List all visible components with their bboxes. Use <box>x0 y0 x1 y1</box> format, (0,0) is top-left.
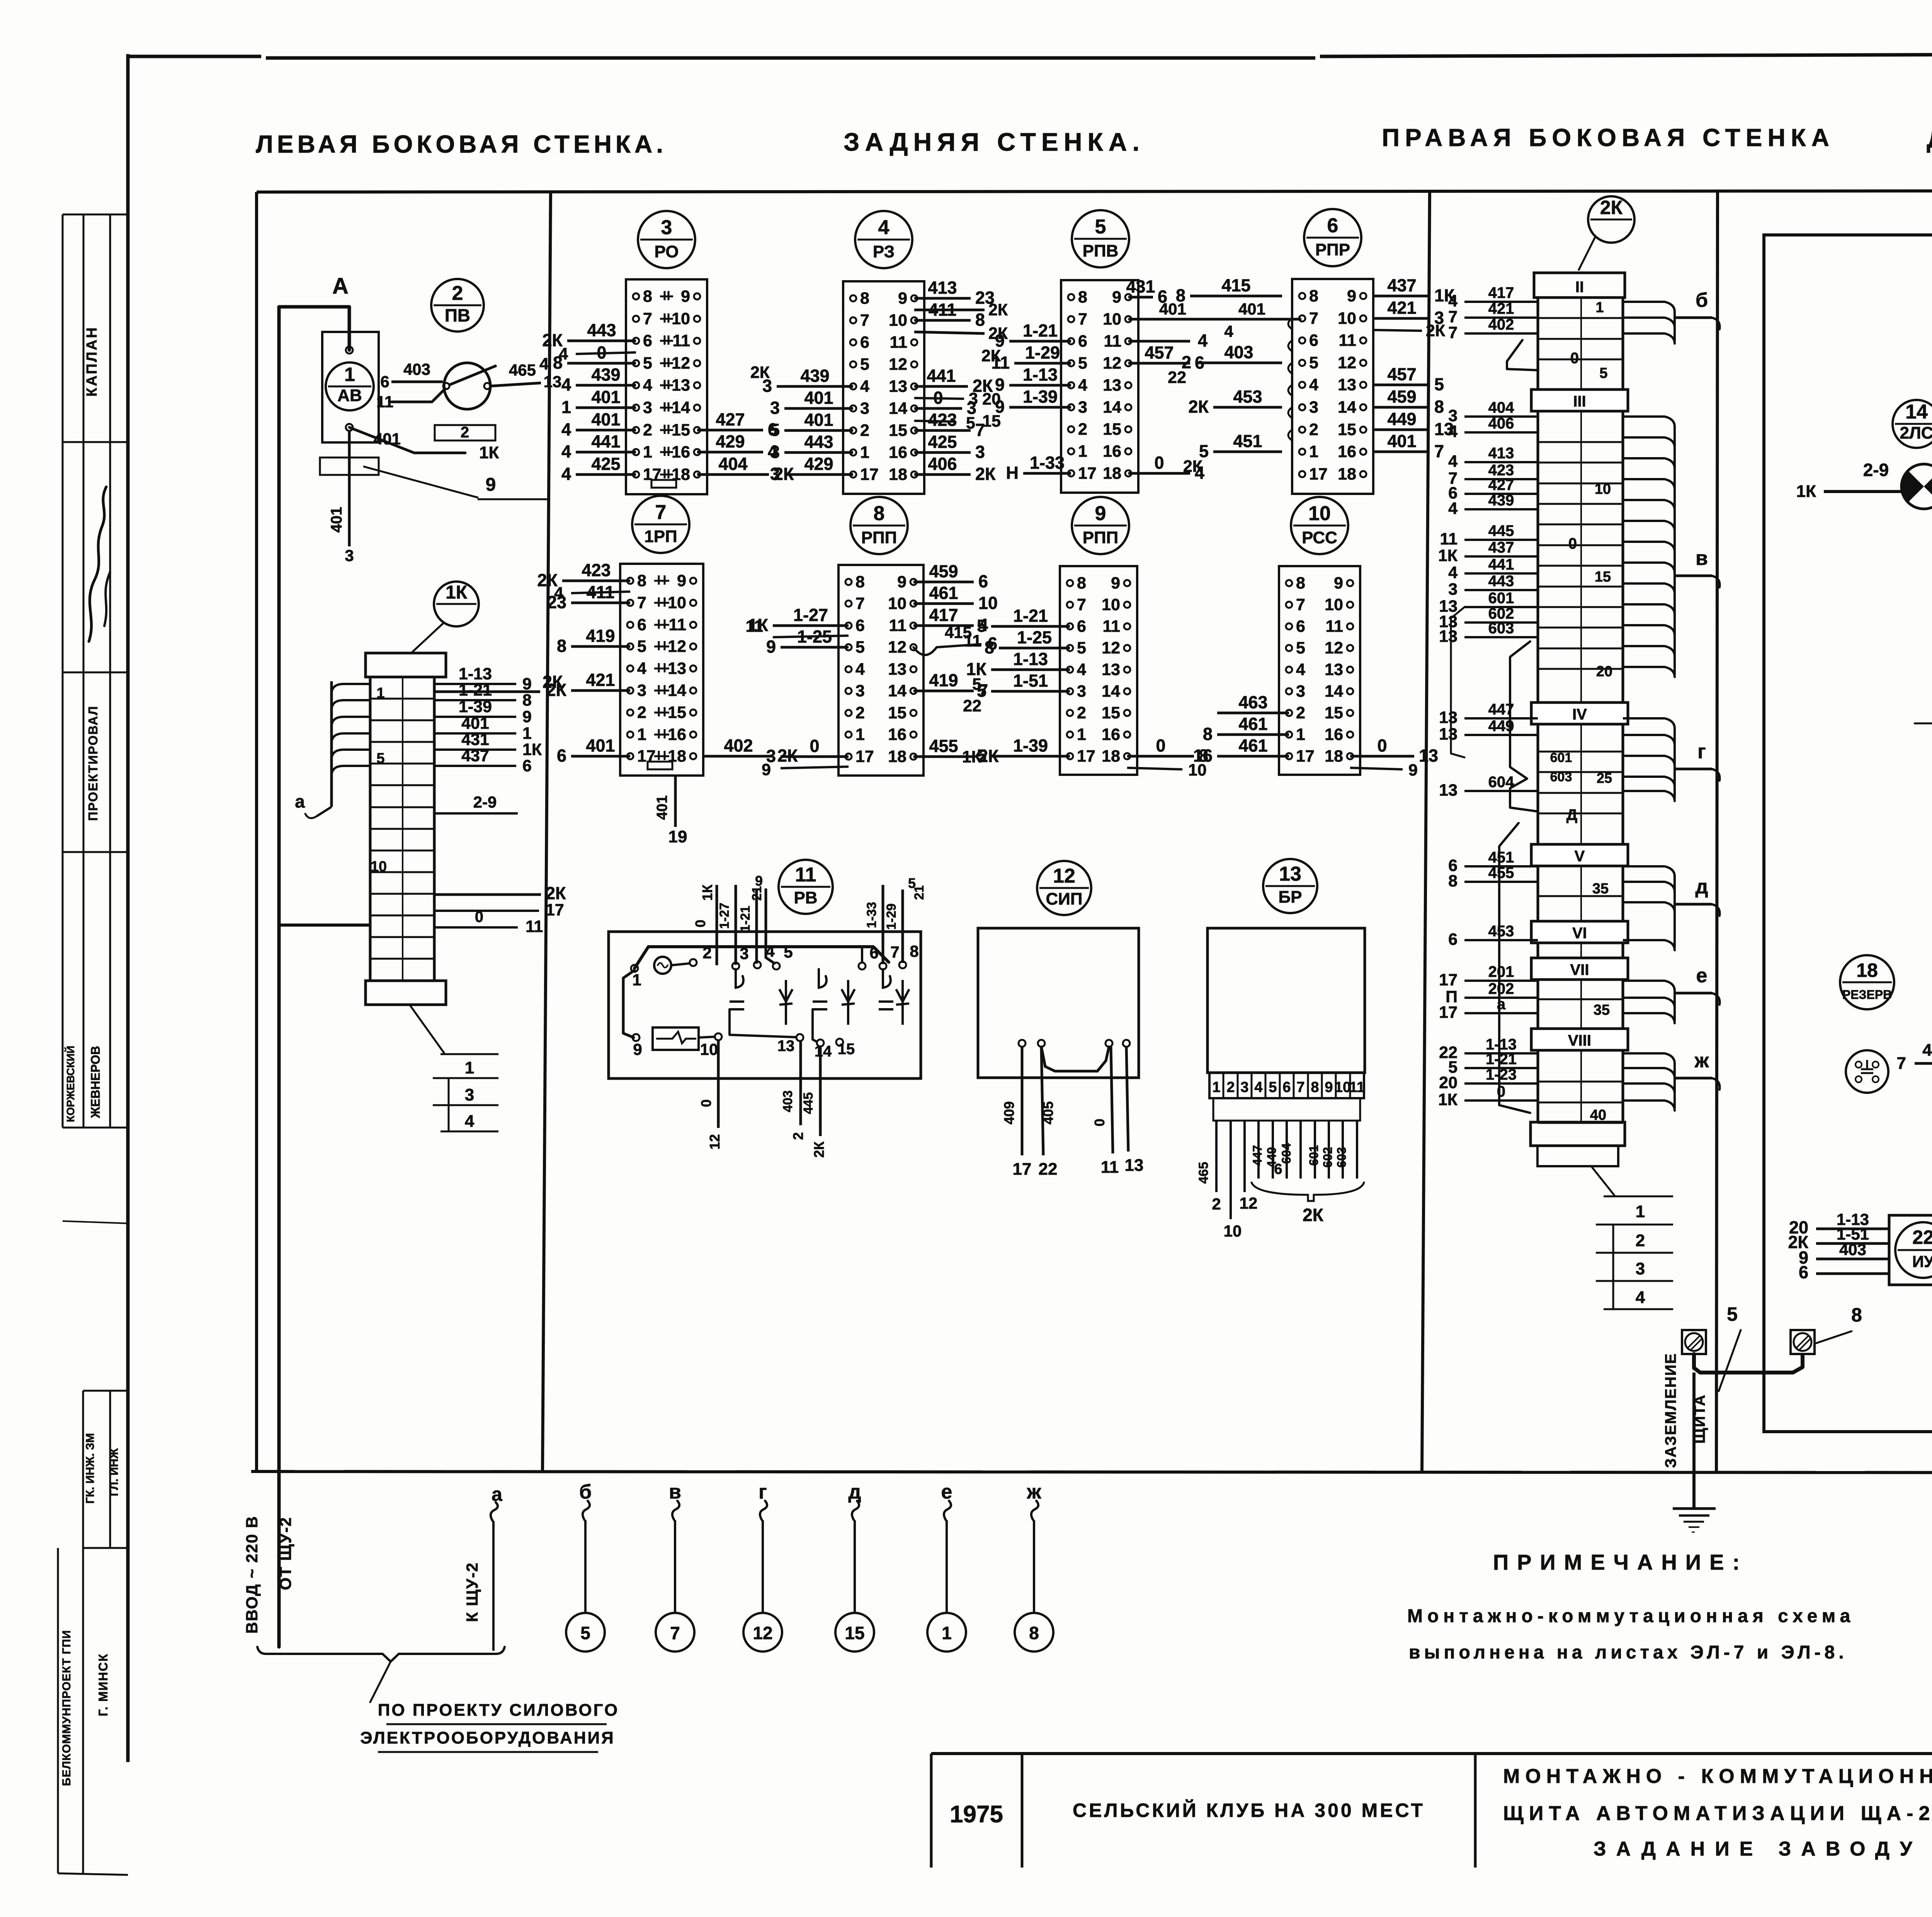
svg-text:1: 1 <box>1077 725 1086 744</box>
svg-text:6: 6 <box>860 333 869 352</box>
svg-text:439: 439 <box>800 366 829 386</box>
svg-text:8: 8 <box>557 636 566 656</box>
svg-text:403: 403 <box>1839 1240 1866 1259</box>
svg-text:9: 9 <box>522 708 532 726</box>
svg-text:1: 1 <box>1296 725 1305 744</box>
svg-text:16: 16 <box>1338 442 1356 461</box>
svg-text:419: 419 <box>929 670 958 690</box>
svg-text:15: 15 <box>1103 420 1121 439</box>
svg-text:5: 5 <box>1309 354 1318 372</box>
svg-text:14: 14 <box>1103 398 1121 417</box>
svg-text:6: 6 <box>1078 332 1087 350</box>
svg-text:4: 4 <box>860 377 869 396</box>
svg-text:14: 14 <box>672 398 690 417</box>
svg-text:17: 17 <box>1077 747 1095 765</box>
svg-text:5: 5 <box>1078 354 1087 373</box>
svg-text:8: 8 <box>860 289 869 308</box>
svg-text:11: 11 <box>889 616 906 635</box>
svg-text:35: 35 <box>1592 881 1609 897</box>
svg-text:17: 17 <box>1013 1160 1032 1179</box>
svg-text:401: 401 <box>804 388 833 408</box>
svg-text:1-39: 1-39 <box>459 697 492 716</box>
svg-text:1: 1 <box>1078 442 1087 461</box>
svg-text:12: 12 <box>668 637 686 656</box>
svg-text:1: 1 <box>1595 299 1604 316</box>
svg-text:1К: 1К <box>522 740 542 759</box>
svg-text:ЖЕВНЕРОВ: ЖЕВНЕРОВ <box>88 1046 102 1119</box>
svg-text:1: 1 <box>1636 1202 1645 1221</box>
svg-text:21: 21 <box>912 885 927 900</box>
svg-text:7: 7 <box>1296 1079 1304 1095</box>
svg-text:10: 10 <box>668 594 686 612</box>
svg-text:5: 5 <box>770 420 780 440</box>
svg-text:443: 443 <box>804 432 833 452</box>
svg-text:15: 15 <box>889 421 907 440</box>
svg-text:425: 425 <box>591 454 620 474</box>
svg-text:461: 461 <box>929 583 958 603</box>
svg-text:35: 35 <box>1594 1002 1610 1018</box>
svg-text:601: 601 <box>1488 590 1514 607</box>
svg-text:10: 10 <box>1224 1222 1242 1240</box>
svg-text:8: 8 <box>1311 1079 1319 1095</box>
svg-text:0: 0 <box>475 908 483 925</box>
svg-text:2: 2 <box>1296 704 1305 722</box>
svg-text:401: 401 <box>1922 1041 1932 1060</box>
svg-text:7: 7 <box>1078 310 1087 328</box>
svg-text:1-21: 1-21 <box>1486 1051 1517 1068</box>
svg-text:449: 449 <box>1387 409 1416 429</box>
svg-text:11: 11 <box>1440 530 1458 548</box>
svg-text:ПО ПРОЕКТУ СИЛОВОГО: ПО ПРОЕКТУ СИЛОВОГО <box>378 1701 619 1720</box>
svg-text:г: г <box>1697 740 1706 763</box>
svg-text:457: 457 <box>1387 364 1416 384</box>
svg-text:4: 4 <box>643 376 652 395</box>
svg-text:2ЛС: 2ЛС <box>1900 424 1932 442</box>
svg-text:8: 8 <box>1448 872 1458 890</box>
svg-text:11: 11 <box>526 917 543 936</box>
svg-text:5: 5 <box>784 943 793 961</box>
svg-text:13: 13 <box>1102 660 1120 679</box>
svg-text:15: 15 <box>1338 420 1356 439</box>
svg-text:451: 451 <box>1233 431 1262 451</box>
svg-text:11: 11 <box>1103 617 1120 636</box>
svg-text:15: 15 <box>1595 569 1611 585</box>
svg-text:22: 22 <box>1168 368 1186 387</box>
svg-text:603: 603 <box>1488 620 1514 637</box>
svg-text:465: 465 <box>1196 1162 1211 1184</box>
svg-text:20: 20 <box>1596 663 1612 680</box>
svg-text:8: 8 <box>910 942 918 960</box>
svg-text:ЗАЗЕМЛЕНИЕ: ЗАЗЕМЛЕНИЕ <box>1662 1353 1679 1468</box>
svg-text:421: 421 <box>1387 298 1416 318</box>
svg-text:2К: 2К <box>546 883 566 903</box>
svg-text:2: 2 <box>461 424 469 441</box>
svg-text:22: 22 <box>963 697 981 715</box>
svg-text:7: 7 <box>637 594 646 612</box>
svg-text:12: 12 <box>1103 354 1121 373</box>
svg-text:1К: 1К <box>446 582 468 603</box>
svg-text:ПРАВАЯ БОКОВАЯ СТЕНКА: ПРАВАЯ БОКОВАЯ СТЕНКА <box>1382 124 1835 151</box>
svg-text:437: 437 <box>461 747 489 765</box>
svg-text:0: 0 <box>1570 350 1579 367</box>
svg-text:БР: БР <box>1279 888 1302 907</box>
svg-text:23: 23 <box>547 592 566 612</box>
svg-text:10: 10 <box>700 1040 718 1058</box>
svg-text:1-27: 1-27 <box>793 605 828 625</box>
svg-text:16: 16 <box>668 725 686 744</box>
svg-text:1: 1 <box>855 725 865 744</box>
svg-text:10: 10 <box>1338 309 1356 328</box>
svg-text:403: 403 <box>1224 342 1253 362</box>
svg-text:3: 3 <box>860 399 869 418</box>
svg-text:10: 10 <box>371 859 387 875</box>
svg-text:22: 22 <box>1039 1160 1058 1179</box>
svg-text:РПВ: РПВ <box>1083 242 1119 260</box>
svg-text:5: 5 <box>637 637 646 656</box>
svg-text:СЕЛЬСКИЙ КЛУБ НА 300 МЕСТ: СЕЛЬСКИЙ КЛУБ НА 300 МЕСТ <box>1073 1799 1425 1821</box>
svg-text:601: 601 <box>1550 750 1572 765</box>
svg-text:6: 6 <box>1327 214 1338 237</box>
svg-text:8: 8 <box>1078 288 1087 306</box>
svg-text:18: 18 <box>1102 747 1120 765</box>
svg-text:453: 453 <box>1488 923 1514 940</box>
svg-text:3: 3 <box>637 681 646 700</box>
svg-text:2: 2 <box>452 282 463 304</box>
svg-text:401: 401 <box>374 430 401 448</box>
svg-text:13: 13 <box>777 1038 795 1055</box>
svg-text:4: 4 <box>1254 1079 1262 1095</box>
svg-text:8: 8 <box>855 573 865 591</box>
svg-text:9: 9 <box>1334 574 1343 592</box>
svg-text:VII: VII <box>1570 961 1589 978</box>
svg-text:6: 6 <box>1282 1079 1291 1095</box>
svg-text:601: 601 <box>1307 1145 1321 1165</box>
svg-text:429: 429 <box>716 432 745 451</box>
svg-text:13: 13 <box>1439 781 1458 799</box>
svg-text:202: 202 <box>1488 980 1514 997</box>
svg-text:VIII: VIII <box>1568 1032 1591 1049</box>
svg-text:401: 401 <box>591 410 620 429</box>
svg-text:0: 0 <box>1092 1119 1107 1126</box>
svg-text:6: 6 <box>1309 331 1318 350</box>
svg-text:604: 604 <box>1279 1143 1293 1164</box>
svg-text:2К: 2К <box>1183 457 1203 476</box>
svg-text:1-33: 1-33 <box>1030 453 1065 473</box>
svg-text:6: 6 <box>1077 617 1086 636</box>
svg-text:15: 15 <box>668 703 686 722</box>
svg-text:11: 11 <box>964 632 981 650</box>
svg-text:выполнена на листах ЭЛ-7 и ЭЛ-: выполнена на листах ЭЛ-7 и ЭЛ-8. <box>1409 1642 1848 1663</box>
svg-text:443: 443 <box>587 320 616 340</box>
svg-text:17: 17 <box>546 901 564 919</box>
svg-text:16: 16 <box>1325 725 1343 744</box>
svg-text:5: 5 <box>1599 365 1607 381</box>
svg-text:401: 401 <box>654 795 670 820</box>
svg-text:ГЛ. ИНЖ: ГЛ. ИНЖ <box>108 1448 121 1496</box>
svg-text:13: 13 <box>1439 725 1458 743</box>
svg-text:429: 429 <box>804 454 833 474</box>
svg-text:IV: IV <box>1572 706 1587 723</box>
svg-text:10: 10 <box>978 593 998 613</box>
svg-text:451: 451 <box>1488 849 1514 866</box>
svg-text:405: 405 <box>1040 1101 1056 1124</box>
svg-text:9: 9 <box>898 289 907 308</box>
svg-text:15: 15 <box>888 704 906 722</box>
svg-text:459: 459 <box>1387 387 1416 407</box>
svg-text:16: 16 <box>888 725 906 744</box>
svg-text:РЗ: РЗ <box>873 242 895 261</box>
svg-text:457: 457 <box>1145 343 1173 362</box>
svg-text:1: 1 <box>1309 442 1318 461</box>
svg-text:РВ: РВ <box>794 888 817 907</box>
svg-text:1РП: 1РП <box>644 527 677 546</box>
svg-text:453: 453 <box>1233 387 1262 407</box>
svg-text:12: 12 <box>1325 639 1343 657</box>
svg-text:4: 4 <box>1078 376 1087 395</box>
svg-text:СИП: СИП <box>1046 890 1082 908</box>
svg-text:403: 403 <box>403 360 430 378</box>
svg-text:17: 17 <box>1439 971 1458 989</box>
svg-text:1К: 1К <box>1796 482 1816 501</box>
svg-text:22: 22 <box>1912 1226 1932 1248</box>
svg-text:447: 447 <box>1250 1145 1264 1165</box>
svg-text:ОТ ЩУ-2: ОТ ЩУ-2 <box>276 1517 294 1590</box>
svg-text:6: 6 <box>1448 930 1458 949</box>
svg-text:3: 3 <box>1077 682 1086 701</box>
svg-text:13: 13 <box>1279 863 1301 885</box>
svg-text:5: 5 <box>643 354 652 373</box>
svg-text:4: 4 <box>1448 422 1458 441</box>
svg-text:437: 437 <box>1387 276 1416 295</box>
svg-text:413: 413 <box>928 278 957 298</box>
svg-text:Г. МИНСК: Г. МИНСК <box>96 1653 110 1716</box>
svg-text:3: 3 <box>770 398 780 418</box>
svg-text:1-29: 1-29 <box>1025 343 1060 362</box>
svg-text:4: 4 <box>1636 1288 1645 1307</box>
svg-text:9: 9 <box>755 873 763 889</box>
svg-text:17: 17 <box>637 747 656 765</box>
svg-text:12: 12 <box>1240 1194 1258 1212</box>
svg-text:а: а <box>492 1483 503 1505</box>
svg-text:0: 0 <box>810 736 819 756</box>
svg-text:17: 17 <box>855 747 874 766</box>
svg-text:14: 14 <box>889 399 907 418</box>
svg-text:1: 1 <box>643 443 652 461</box>
svg-text:9: 9 <box>1095 502 1106 525</box>
svg-text:ПРИМЕЧАНИЕ:: ПРИМЕЧАНИЕ: <box>1493 1550 1748 1574</box>
svg-text:409: 409 <box>1001 1101 1017 1124</box>
svg-text:1-23: 1-23 <box>1486 1066 1517 1083</box>
svg-text:3: 3 <box>1296 682 1305 701</box>
svg-text:4: 4 <box>1296 660 1305 679</box>
svg-text:Монтажно-коммутационная схема: Монтажно-коммутационная схема <box>1407 1606 1855 1626</box>
svg-text:406: 406 <box>1488 415 1514 432</box>
svg-text:4: 4 <box>561 375 571 395</box>
svg-text:КАПЛАН: КАПЛАН <box>84 326 100 397</box>
svg-text:2-9: 2-9 <box>1863 460 1889 480</box>
svg-text:1-39: 1-39 <box>1013 736 1048 755</box>
svg-text:401: 401 <box>1238 300 1265 318</box>
svg-text:2К: 2К <box>1426 321 1446 340</box>
svg-text:18: 18 <box>889 465 907 484</box>
svg-text:19: 19 <box>668 827 687 846</box>
svg-text:15: 15 <box>838 1041 855 1058</box>
svg-text:401: 401 <box>328 507 345 533</box>
svg-text:10: 10 <box>1308 502 1331 525</box>
svg-text:5: 5 <box>1296 639 1305 657</box>
svg-text:1-13: 1-13 <box>1013 649 1048 669</box>
svg-text:III: III <box>1573 393 1586 410</box>
svg-text:6: 6 <box>637 616 646 634</box>
svg-text:д: д <box>1695 876 1708 898</box>
svg-text:РЕЗЕРВ: РЕЗЕРВ <box>1842 988 1892 1002</box>
svg-text:10: 10 <box>1102 595 1120 614</box>
svg-text:455: 455 <box>1488 864 1514 881</box>
svg-text:18: 18 <box>1325 747 1343 765</box>
svg-text:441: 441 <box>927 366 956 386</box>
svg-text:14: 14 <box>888 682 906 700</box>
svg-text:0: 0 <box>692 920 708 927</box>
svg-text:11: 11 <box>1349 1079 1365 1095</box>
svg-text:8: 8 <box>874 502 885 525</box>
svg-text:439: 439 <box>1488 492 1514 509</box>
svg-text:461: 461 <box>1238 714 1267 734</box>
svg-text:8: 8 <box>637 572 646 590</box>
svg-text:4: 4 <box>561 464 571 484</box>
svg-text:1: 1 <box>942 1623 952 1643</box>
svg-text:3: 3 <box>661 216 672 239</box>
svg-text:11: 11 <box>669 616 686 634</box>
svg-text:6: 6 <box>869 944 878 962</box>
svg-text:1975: 1975 <box>950 1801 1003 1828</box>
svg-text:11: 11 <box>890 333 907 352</box>
svg-text:8: 8 <box>553 353 563 373</box>
svg-text:2К: 2К <box>975 464 996 484</box>
svg-text:А: А <box>332 274 349 299</box>
svg-text:1: 1 <box>376 685 384 701</box>
svg-text:417: 417 <box>1488 284 1514 301</box>
svg-text:423: 423 <box>582 560 611 580</box>
svg-text:4: 4 <box>1198 331 1207 350</box>
svg-text:8: 8 <box>1176 286 1185 305</box>
svg-text:419: 419 <box>586 626 615 646</box>
svg-text:е: е <box>1696 964 1708 987</box>
svg-text:6: 6 <box>1799 1262 1808 1282</box>
svg-text:9: 9 <box>1112 288 1121 306</box>
svg-text:3: 3 <box>1240 1079 1248 1095</box>
svg-text:Д: Д <box>1566 806 1578 823</box>
svg-text:3: 3 <box>975 442 985 462</box>
svg-text:11: 11 <box>1101 1158 1119 1177</box>
svg-text:5: 5 <box>1727 1303 1738 1325</box>
svg-text:КОРЖЕВСКИЙ: КОРЖЕВСКИЙ <box>64 1046 77 1122</box>
svg-text:ПРОЕКТИРОВАЛ: ПРОЕКТИРОВАЛ <box>86 706 100 821</box>
svg-text:431: 431 <box>461 730 489 749</box>
svg-text:7: 7 <box>670 1623 680 1643</box>
svg-text:8: 8 <box>985 638 994 657</box>
svg-text:ж: ж <box>1694 1050 1709 1072</box>
svg-text:7: 7 <box>1309 309 1318 328</box>
svg-text:2: 2 <box>860 421 869 440</box>
svg-text:МОНТАЖНО - КОММУТАЦИОННАЯ СХЕМ: МОНТАЖНО - КОММУТАЦИОННАЯ СХЕМА <box>1503 1765 1932 1788</box>
svg-text:1-13: 1-13 <box>459 665 492 683</box>
svg-text:18: 18 <box>888 747 906 766</box>
svg-text:7: 7 <box>655 501 667 524</box>
svg-text:411: 411 <box>929 300 957 320</box>
svg-text:6: 6 <box>1296 617 1305 636</box>
svg-text:3: 3 <box>740 944 748 963</box>
svg-text:1: 1 <box>344 364 355 385</box>
svg-text:3: 3 <box>465 1085 474 1104</box>
svg-text:ДВЕРЬ (ВИД СЗАДИ): ДВЕРЬ (ВИД СЗАДИ) <box>1927 124 1932 153</box>
svg-text:14: 14 <box>815 1043 832 1060</box>
svg-text:1: 1 <box>561 397 571 417</box>
svg-text:4: 4 <box>465 1112 474 1131</box>
svg-text:1К: 1К <box>962 748 982 766</box>
svg-text:461: 461 <box>1238 736 1267 755</box>
svg-text:8: 8 <box>643 287 652 306</box>
svg-text:421: 421 <box>586 670 615 690</box>
svg-text:6: 6 <box>380 373 389 391</box>
svg-text:16: 16 <box>1103 442 1121 461</box>
svg-text:5: 5 <box>1434 374 1444 394</box>
svg-text:БЕЛКОММУНПРОЕКТ ГПИ: БЕЛКОММУНПРОЕКТ ГПИ <box>60 1630 73 1786</box>
svg-text:7: 7 <box>890 943 899 961</box>
svg-text:2: 2 <box>1226 1079 1235 1095</box>
svg-text:18: 18 <box>1338 465 1356 483</box>
svg-text:459: 459 <box>929 561 958 581</box>
svg-text:д: д <box>848 1481 861 1503</box>
svg-text:404: 404 <box>1488 399 1514 416</box>
svg-text:421: 421 <box>1488 300 1514 317</box>
svg-text:445: 445 <box>801 1092 816 1114</box>
svg-text:1К: 1К <box>479 443 499 462</box>
svg-text:6: 6 <box>557 746 566 765</box>
svg-text:1К: 1К <box>1438 546 1458 565</box>
svg-text:17: 17 <box>860 465 879 484</box>
svg-text:1-29: 1-29 <box>884 903 899 930</box>
svg-text:441: 441 <box>591 432 620 451</box>
svg-text:3: 3 <box>770 464 780 484</box>
svg-text:1-21: 1-21 <box>738 906 753 932</box>
svg-text:4: 4 <box>1448 499 1458 518</box>
svg-text:2: 2 <box>790 1132 806 1140</box>
svg-text:6: 6 <box>978 572 988 591</box>
svg-text:9: 9 <box>897 573 906 591</box>
svg-text:2: 2 <box>702 944 711 962</box>
svg-text:3: 3 <box>855 682 865 700</box>
svg-text:7: 7 <box>1448 323 1458 342</box>
svg-text:0: 0 <box>1156 736 1165 755</box>
svg-text:2К: 2К <box>546 680 567 700</box>
svg-text:13: 13 <box>1125 1156 1144 1175</box>
svg-text:13: 13 <box>889 377 907 396</box>
svg-text:25: 25 <box>1597 770 1612 786</box>
svg-text:12: 12 <box>1053 865 1075 887</box>
svg-text:5: 5 <box>1269 1079 1277 1095</box>
svg-text:401: 401 <box>586 736 615 755</box>
svg-text:431: 431 <box>1126 277 1155 296</box>
svg-text:16: 16 <box>889 443 907 462</box>
svg-text:4: 4 <box>1448 563 1458 582</box>
svg-text:ЭЛЕКТРООБОРУДОВАНИЯ: ЭЛЕКТРООБОРУДОВАНИЯ <box>360 1728 615 1747</box>
svg-text:8: 8 <box>975 310 985 330</box>
svg-text:402: 402 <box>724 736 753 755</box>
svg-text:1: 1 <box>632 971 641 989</box>
svg-text:14: 14 <box>1338 398 1356 417</box>
svg-text:ЗАДАНИЕ ЗАВОДУ: ЗАДАНИЕ ЗАВОДУ <box>1594 1838 1922 1860</box>
svg-text:4: 4 <box>1224 322 1233 340</box>
